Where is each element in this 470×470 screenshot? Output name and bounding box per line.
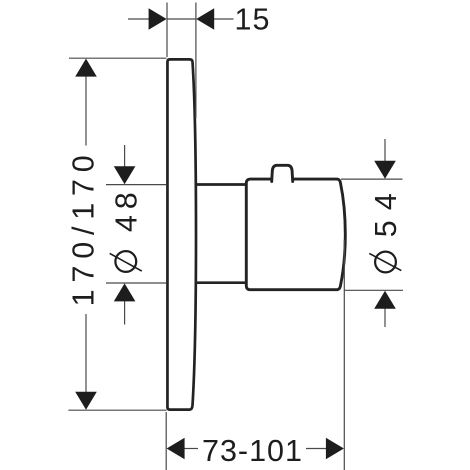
extension line bottom <box>344 289 403 291</box>
svg-text:54: 54 <box>369 183 403 237</box>
extension line right (back bulge) <box>195 3 197 119</box>
lower arrow lead line <box>124 300 126 325</box>
dimension line segments <box>128 18 151 20</box>
arrow down <box>75 392 97 410</box>
dimension line upper segment <box>85 74 87 146</box>
arrow up onto bottom line <box>114 283 136 301</box>
svg-text:48: 48 <box>109 186 143 232</box>
svg-text:73-101: 73-101 <box>202 434 303 468</box>
extension line left (front face) <box>166 3 168 58</box>
dimension line lower segment <box>85 314 87 392</box>
extension line right <box>343 240 345 470</box>
arrow down onto top line <box>114 166 136 184</box>
arrow pointing right <box>326 438 344 460</box>
extension line left <box>165 412 167 470</box>
arrow up <box>75 59 97 77</box>
upper arrow lead line <box>124 145 126 168</box>
arrow down onto top line <box>374 161 396 179</box>
dimension line segments <box>183 448 199 450</box>
escutcheon plate (side view) <box>167 59 196 409</box>
arrow up onto bottom line <box>374 291 396 309</box>
upper arrow lead line <box>384 139 386 163</box>
lower arrow lead line <box>384 308 386 328</box>
svg-text:15: 15 <box>235 3 271 37</box>
diameter symbol for 54 <box>369 252 401 273</box>
extension line top <box>69 57 167 59</box>
extension line bottom <box>106 282 167 284</box>
diameter symbol for 48 <box>110 251 142 272</box>
valve sleeve cylinder top line <box>195 183 248 186</box>
arrow pointing left <box>167 438 185 460</box>
extension line top <box>341 178 403 180</box>
handle (knob, side view) <box>246 179 345 290</box>
valve sleeve cylinder bottom line <box>195 281 248 284</box>
arrow pointing left <box>196 8 214 30</box>
arrow pointing right <box>149 8 167 30</box>
svg-text:170/170: 170/170 <box>67 148 101 306</box>
extension line top <box>106 184 167 186</box>
button on top of handle <box>272 165 293 181</box>
extension line bottom <box>68 409 166 411</box>
